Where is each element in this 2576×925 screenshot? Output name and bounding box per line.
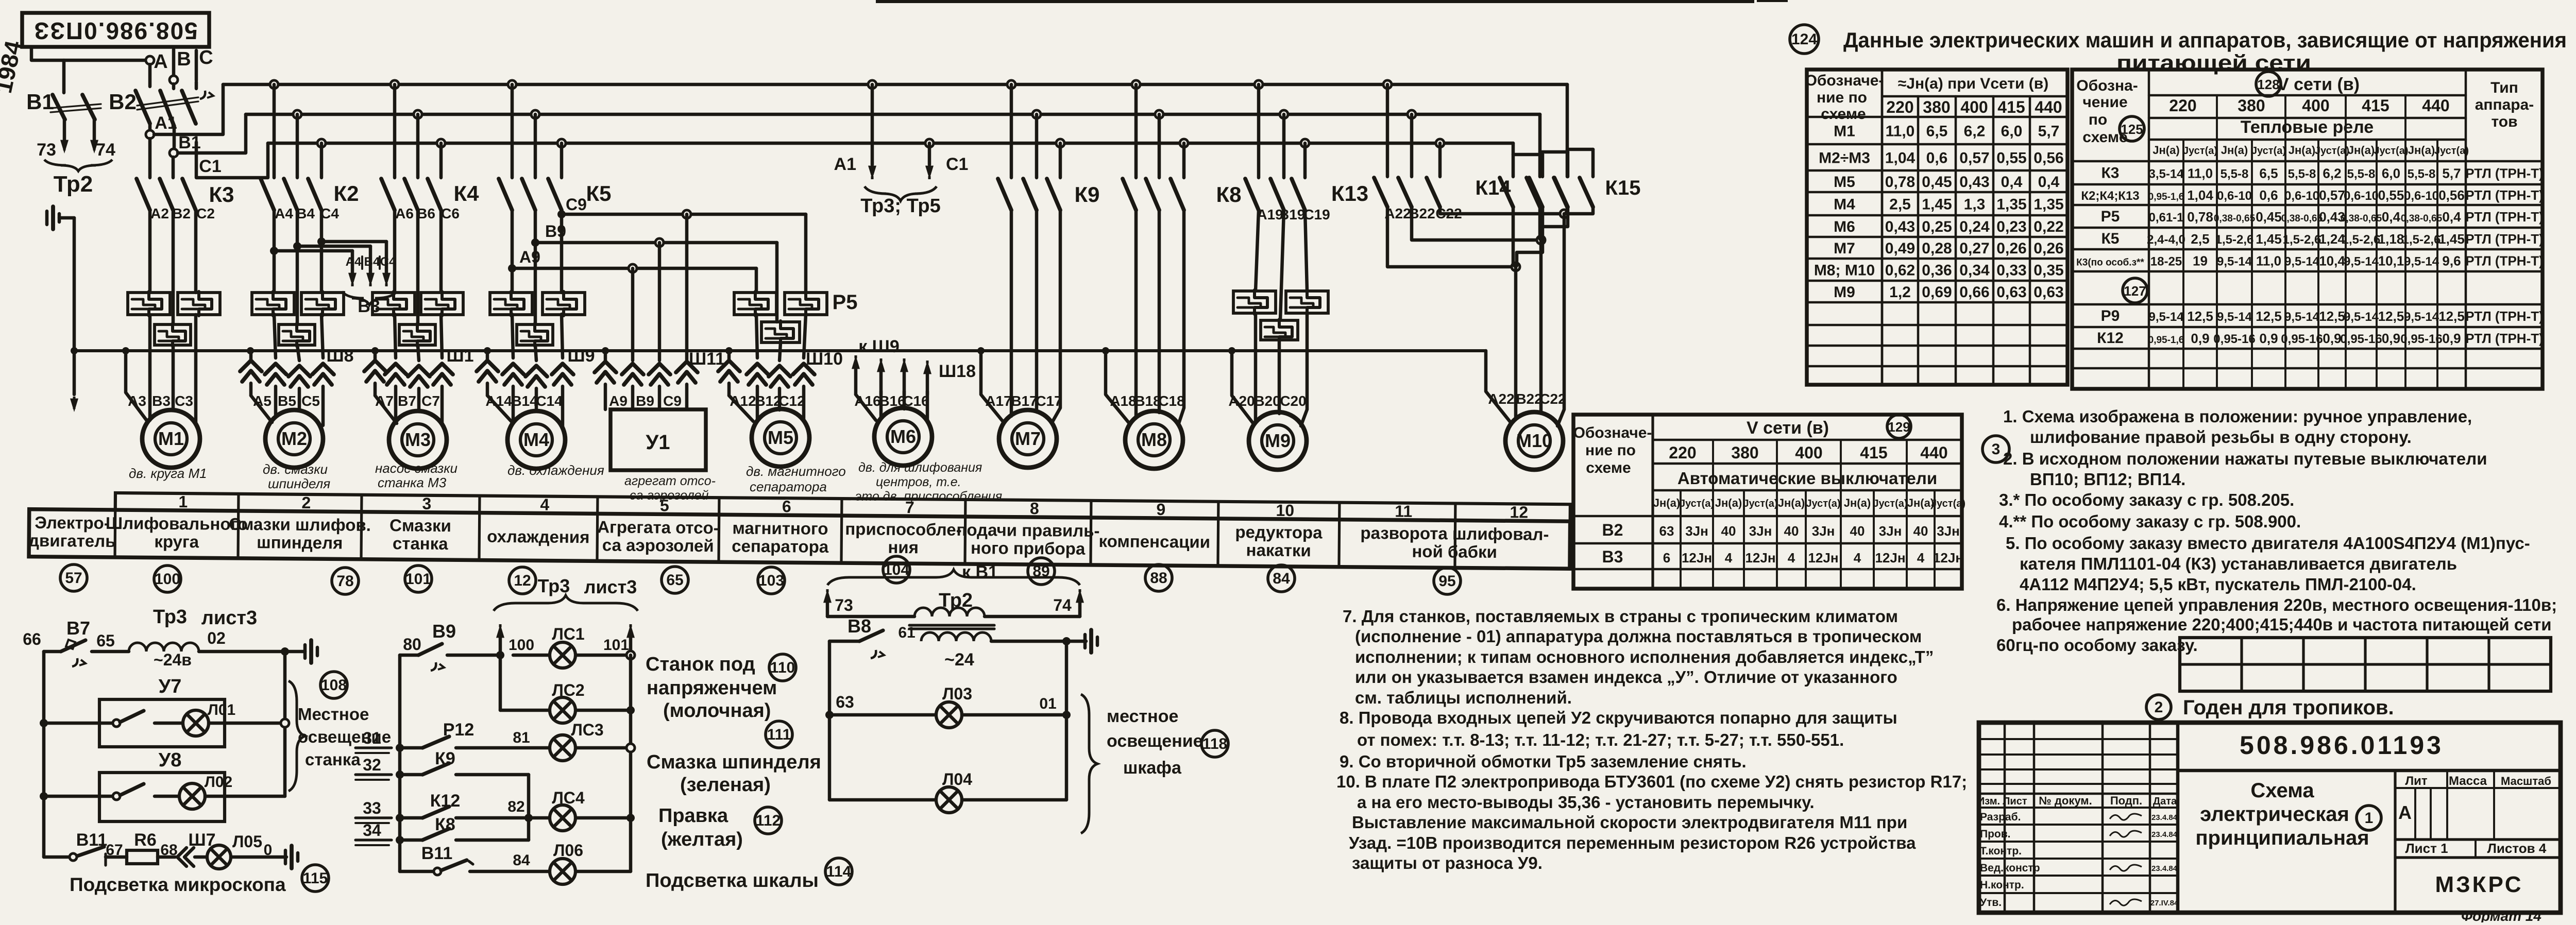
wire R6 to Sh7 <box>158 855 175 859</box>
box U7 <box>99 676 225 747</box>
svg-text:накатки: накатки <box>1246 540 1311 560</box>
svg-text:К15: К15 <box>1605 177 1641 199</box>
note text middle <box>1352 813 1907 832</box>
svg-text:Обозначе-: Обозначе- <box>1805 72 1884 89</box>
wires thermal to motor M1 <box>150 315 196 424</box>
K14 outputs <box>1513 207 1567 267</box>
svg-text:Л01: Л01 <box>208 701 235 718</box>
motor M3 <box>389 411 447 469</box>
label Sh10 <box>806 349 843 369</box>
svg-text:0,26: 0,26 <box>2033 240 2063 257</box>
svg-text:Подп.: Подп. <box>2110 794 2142 807</box>
thermal relay M4 phase C <box>543 292 585 316</box>
bus 1 junction x1693 <box>868 80 876 89</box>
label 02 <box>207 629 226 647</box>
labels A6 B6 C6 <box>395 205 460 221</box>
svg-text:ЛС2: ЛС2 <box>552 681 584 699</box>
note text <box>2003 449 2487 468</box>
svg-text:шлифование правой резьбы в: шлифование правой резьбы в одну сторону. <box>2030 427 2412 447</box>
circled wire number 104 <box>883 556 910 583</box>
svg-text:9,5-14: 9,5-14 <box>2404 310 2439 324</box>
svg-text:от помех: т.т. 8-13; т.т. 11-1: от помех: т.т. 8-13; т.т. 11-12; т.т. 21… <box>1357 730 1844 749</box>
note text middle <box>1349 833 1916 852</box>
svg-text:Лит: Лит <box>2405 774 2428 788</box>
svg-text:0,23: 0,23 <box>1996 218 2026 235</box>
wire K9 to corner <box>456 775 529 840</box>
svg-text:С1: С1 <box>946 155 968 174</box>
label k B1 <box>962 562 998 582</box>
ground symbol left <box>47 207 59 229</box>
bus 1 junction x994 <box>508 80 516 89</box>
title block <box>1977 722 2561 913</box>
thermal relay P5 phase B <box>761 321 800 344</box>
svg-text:115: 115 <box>303 870 328 887</box>
svg-text:Смазки шлифов.: Смазки шлифов. <box>229 515 371 535</box>
svg-text:0,6-10: 0,6-10 <box>2284 189 2319 203</box>
tap B3 phase A <box>270 247 357 286</box>
circled wire number 95 <box>1434 568 1461 594</box>
circled number 114 <box>825 858 852 885</box>
svg-text:шкафа: шкафа <box>1123 758 1182 778</box>
svg-text:Электро-: Электро- <box>35 513 110 533</box>
svg-text:К13: К13 <box>1331 181 1368 205</box>
caption U1 <box>624 474 716 503</box>
K15 outputs <box>1517 207 1593 266</box>
svg-text:12: 12 <box>1510 503 1528 521</box>
svg-text:440: 440 <box>2422 96 2449 115</box>
bus 3 junction x2795 <box>1436 139 1444 147</box>
motor M6 <box>874 408 932 466</box>
svg-text:станка: станка <box>393 534 449 553</box>
chevron A14 <box>502 364 524 385</box>
wires K4 down <box>395 210 441 324</box>
svg-text:104: 104 <box>884 561 909 578</box>
svg-text:С3: С3 <box>175 393 193 409</box>
svg-text:12,5: 12,5 <box>2319 309 2345 324</box>
svg-text:ЛС4: ЛС4 <box>552 789 585 807</box>
note text middle <box>1355 688 1572 707</box>
circled wire number 89 <box>1028 558 1055 585</box>
svg-text:Jуст(а): Jуст(а) <box>2434 145 2469 157</box>
svg-text:В9: В9 <box>636 393 654 409</box>
svg-text:4А112 М4П2У4; 5,5 кВт, пускат: 4А112 М4П2У4; 5,5 кВт, пускатель ПМЛ-210… <box>2020 575 2416 594</box>
svg-text:Пров.: Пров. <box>1980 828 2011 840</box>
svg-text:Тип: Тип <box>2490 79 2518 96</box>
svg-text:М9: М9 <box>1265 430 1291 451</box>
svg-text:Jн(а): Jн(а) <box>2289 144 2315 157</box>
note text middle <box>1355 667 1897 687</box>
svg-text:подачи правиль-: подачи правиль- <box>956 520 1099 540</box>
PE junction x728 <box>371 347 379 354</box>
svg-text:415: 415 <box>1997 98 2025 116</box>
svg-text:0,24: 0,24 <box>1959 218 1990 235</box>
wires chevrons to U1 box <box>605 384 687 409</box>
svg-text:23.4.84: 23.4.84 <box>2151 813 2178 822</box>
svg-text:0,38-0,65: 0,38-0,65 <box>2214 213 2256 224</box>
table header line 1 <box>1843 28 2567 52</box>
svg-text:508.986.0ПЗЗ: 508.986.0ПЗЗ <box>33 18 197 44</box>
svg-text:415: 415 <box>2362 96 2389 115</box>
svg-text:А7: А7 <box>375 393 394 409</box>
svg-text:Р9: Р9 <box>2101 307 2120 324</box>
svg-text:≈Jн(а) при Vсети (в): ≈Jн(а) при Vсети (в) <box>1898 75 2048 92</box>
svg-text:~24: ~24 <box>944 650 974 670</box>
brace local lighting <box>289 681 305 791</box>
ground right circuit A <box>285 640 317 663</box>
svg-text:РТЛ (ТРН-Т): РТЛ (ТРН-Т) <box>2465 231 2544 247</box>
label microscope light <box>70 874 286 895</box>
labels A5 B5 C5 <box>253 393 320 409</box>
svg-text:РТЛ (ТРН-Т): РТЛ (ТРН-Т) <box>2465 309 2544 324</box>
svg-text:РТЛ (ТРН-Т): РТЛ (ТРН-Т) <box>2465 209 2544 225</box>
label station under voltage <box>646 654 777 722</box>
svg-text:Ш1: Ш1 <box>446 346 473 366</box>
PE stub to M7 <box>981 351 1004 422</box>
svg-text:66: 66 <box>23 630 41 648</box>
svg-text:В2: В2 <box>1602 521 1623 539</box>
svg-text:12Jн: 12Jн <box>1745 550 1775 566</box>
left vertical circuit A <box>42 652 46 857</box>
svg-text:станка М3: станка М3 <box>378 475 447 490</box>
svg-text:0,66: 0,66 <box>1959 284 1989 301</box>
switch B11 circuit A <box>44 830 107 865</box>
thermal relay M2 phase A <box>252 292 294 316</box>
svg-text:4: 4 <box>1725 550 1733 566</box>
svg-text:Jуст(а): Jуст(а) <box>2315 145 2349 157</box>
svg-text:Н.контр.: Н.контр. <box>1980 879 2024 891</box>
motor M4 <box>507 411 565 469</box>
label 66 <box>23 630 41 648</box>
svg-text:Jуст(а): Jуст(а) <box>1806 498 1840 509</box>
terminal 31 <box>355 729 392 753</box>
circled number 111 <box>766 721 792 748</box>
bus 1 junction x2443 <box>1255 80 1263 89</box>
tap B3 phase C <box>317 237 391 286</box>
note text <box>1996 595 2557 614</box>
PE junction x486 <box>247 347 254 354</box>
wires M6 up arrows <box>852 355 931 395</box>
note text <box>1999 512 2301 531</box>
note text <box>2003 407 2472 426</box>
circled number 112 <box>755 807 782 834</box>
note text middle <box>1343 607 1898 626</box>
thermal relay M4 phase B <box>517 323 553 346</box>
svg-text:01: 01 <box>1039 695 1056 712</box>
svg-text:9,5-14: 9,5-14 <box>2284 255 2320 269</box>
circled wire number 12 <box>509 567 536 594</box>
label 65 <box>96 631 115 650</box>
wire stub B <box>172 49 176 76</box>
svg-text:127: 127 <box>2124 283 2146 299</box>
caption M2 <box>263 461 330 491</box>
wires K5 down <box>512 210 562 324</box>
svg-text:0,61-1: 0,61-1 <box>2148 211 2183 225</box>
svg-text:31: 31 <box>363 729 381 747</box>
breaker B2 pole C <box>182 82 196 124</box>
svg-text:0,35: 0,35 <box>2033 262 2063 279</box>
svg-text:В2: В2 <box>109 90 137 114</box>
switch K12 aux <box>400 791 460 818</box>
PE stub to M10 <box>1486 351 1511 422</box>
svg-text:0,95-16: 0,95-16 <box>2340 332 2382 346</box>
svg-text:Тр3; Тр5: Тр3; Тр5 <box>860 195 940 217</box>
svg-text:М7: М7 <box>1015 428 1041 449</box>
svg-text:8. Провода входных цепей У2: 8. Провода входных цепей У2 скручиваются… <box>1340 708 1897 727</box>
svg-text:М4: М4 <box>523 429 549 450</box>
svg-text:0,57: 0,57 <box>1959 150 1989 167</box>
motor M2 <box>265 410 323 468</box>
junction U8 left <box>40 792 48 800</box>
wires chevrons to motor M5 <box>729 383 804 421</box>
svg-text:Ш8: Ш8 <box>326 346 353 366</box>
svg-text:К3(по особ.з**: К3(по особ.з** <box>2076 258 2144 268</box>
junction 34 <box>396 836 404 844</box>
svg-text:Изм.: Изм. <box>1977 796 2000 807</box>
bus 3 junction x2298 <box>1180 139 1188 147</box>
wire LS2 branch <box>500 655 549 710</box>
svg-text:Формат 14: Формат 14 <box>2461 908 2541 922</box>
svg-text:80: 80 <box>403 635 421 654</box>
PE riser and down arrow <box>70 218 78 412</box>
svg-text:1,45: 1,45 <box>2256 231 2282 247</box>
svg-text:0,45: 0,45 <box>1922 174 1952 191</box>
svg-text:К8: К8 <box>435 815 455 834</box>
note text <box>2006 534 2530 553</box>
svg-text:В9: В9 <box>545 222 566 241</box>
svg-text:М6: М6 <box>890 426 916 447</box>
svg-text:5,7: 5,7 <box>2442 166 2461 181</box>
breaker B1 pole 1 <box>53 95 69 153</box>
svg-text:С12: С12 <box>778 393 805 409</box>
svg-text:18-25: 18-25 <box>2150 255 2182 269</box>
merge wire A22 <box>1387 207 1520 271</box>
label 67 <box>106 842 123 859</box>
svg-text:к В1: к В1 <box>962 562 998 582</box>
wires K2 down <box>274 210 321 324</box>
svg-text:12,5: 12,5 <box>2256 309 2282 324</box>
svg-text:0,95-1,6: 0,95-1,6 <box>2148 335 2184 346</box>
wires K9 to motor M7 <box>1011 210 1060 423</box>
svg-text:К14: К14 <box>1476 177 1512 199</box>
PE horizontal line <box>74 349 1486 352</box>
wire into U7 <box>44 722 112 725</box>
svg-text:12Jн: 12Jн <box>1933 550 1963 566</box>
wires thermal M9 to motor <box>1256 313 1307 426</box>
motor M8 <box>1125 411 1183 469</box>
svg-text:23.4.84: 23.4.84 <box>2151 830 2178 839</box>
svg-text:1. Схема изображена в полож: 1. Схема изображена в положении: ручное … <box>2003 407 2472 426</box>
svg-text:В3: В3 <box>152 393 171 409</box>
bus 2 junction x2492 <box>1280 110 1288 118</box>
wire K12 to LS4 <box>456 798 549 822</box>
bus 3 junction x2058 <box>1056 139 1064 147</box>
tap B9 <box>531 222 777 247</box>
wire P12 to LS3 <box>456 729 549 748</box>
svg-text:0,28: 0,28 <box>1922 240 1952 257</box>
contactor K13 M10 set <box>1374 84 1440 207</box>
tap C9 <box>557 195 806 218</box>
svg-text:Л06: Л06 <box>553 841 583 860</box>
svg-text:0,9: 0,9 <box>2259 331 2278 346</box>
label Sh9 <box>567 346 595 366</box>
svg-text:0,6-10: 0,6-10 <box>2217 189 2252 203</box>
small revision table <box>2180 638 2551 691</box>
svg-text:1,5-2,6: 1,5-2,6 <box>2215 233 2254 247</box>
svg-text:33: 33 <box>363 799 381 817</box>
svg-text:РТЛ (ТРН-Т): РТЛ (ТРН-Т) <box>2465 331 2544 346</box>
svg-text:4: 4 <box>540 495 549 513</box>
svg-text:110: 110 <box>770 659 795 676</box>
box U8 <box>99 749 225 821</box>
motor M10 <box>1505 412 1563 470</box>
lamp LS3 <box>550 721 635 761</box>
svg-text:К8: К8 <box>1216 182 1242 207</box>
breaker B2 linkage <box>137 97 198 110</box>
svg-text:84: 84 <box>513 852 530 869</box>
bus 1 junction x2205 <box>1132 80 1140 89</box>
bracket arrows Tp3 <box>496 624 635 655</box>
svg-text:Jн(а): Jн(а) <box>1907 496 1934 509</box>
svg-text:61: 61 <box>898 624 915 641</box>
svg-text:Jуст(а): Jуст(а) <box>2183 145 2217 157</box>
brace k B1 <box>827 570 1080 585</box>
wire U8 to right <box>205 795 285 798</box>
chevron C7 <box>431 364 453 385</box>
svg-text:Правка: Правка <box>658 805 728 827</box>
chevron A12 <box>747 364 768 385</box>
PE junction x1415 <box>725 347 733 354</box>
svg-text:0,38-0,65: 0,38-0,65 <box>2341 213 2382 224</box>
wire to R6 <box>106 855 127 859</box>
svg-text:5,5-8: 5,5-8 <box>2408 167 2436 181</box>
svg-text:принципиальная: принципиальная <box>2195 827 2369 849</box>
note text <box>2012 615 2552 634</box>
label Tp2 left <box>54 172 93 197</box>
svg-text:65: 65 <box>96 631 115 650</box>
tap A1 arrow <box>834 84 876 179</box>
svg-text:128: 128 <box>2257 77 2279 92</box>
breaker B1 linkage <box>50 104 101 112</box>
svg-text:11: 11 <box>1395 502 1412 521</box>
label 68 <box>160 842 177 859</box>
svg-text:Jуст(а): Jуст(а) <box>2374 145 2408 157</box>
svg-text:3Jн: 3Jн <box>1812 523 1835 539</box>
svg-text:А: А <box>154 51 167 73</box>
svg-text:К9: К9 <box>435 749 455 768</box>
svg-text:сепаратора: сепаратора <box>750 479 827 494</box>
label C <box>199 47 213 68</box>
label 100 <box>509 637 534 654</box>
svg-text:40: 40 <box>1784 523 1799 539</box>
svg-text:Обозначе-: Обозначе- <box>1573 424 1652 441</box>
svg-text:114: 114 <box>826 863 852 880</box>
svg-text:V сети (в): V сети (в) <box>2277 75 2360 94</box>
ground Tp2 <box>1066 630 1097 653</box>
svg-text:4: 4 <box>1917 550 1925 566</box>
contactor K9 <box>998 84 1100 210</box>
svg-text:9,5-14: 9,5-14 <box>2344 255 2379 269</box>
contactor K13 M9 <box>1245 84 1368 210</box>
svg-text:А1: А1 <box>834 155 856 174</box>
svg-text:(исполнение - 01) аппаратура: (исполнение - 01) аппаратура должна пост… <box>1355 627 1922 646</box>
thermal relay M1 phase C <box>178 292 220 316</box>
svg-text:125: 125 <box>2121 122 2143 137</box>
svg-text:Jуст(а): Jуст(а) <box>1680 498 1714 509</box>
svg-text:Лист 1: Лист 1 <box>2405 841 2448 856</box>
thermal relay M9 phase C <box>1286 290 1328 314</box>
svg-text:А9: А9 <box>609 393 628 409</box>
svg-text:0,95-16: 0,95-16 <box>2281 332 2323 346</box>
svg-text:В20: В20 <box>1254 393 1280 409</box>
wires thermal M3 to chevrons <box>395 314 442 361</box>
svg-text:(зеленая): (зеленая) <box>680 774 771 796</box>
wire switch to lamp L01 <box>155 722 183 725</box>
svg-text:57: 57 <box>65 570 82 587</box>
wires thermal M2 to chevrons <box>274 314 323 361</box>
svg-text:ЛС3: ЛС3 <box>571 721 603 739</box>
wires chevrons to motor M4 <box>487 383 563 428</box>
svg-text:напряженчем: напряженчем <box>647 677 777 699</box>
bus 3 junction x1804 <box>925 139 934 147</box>
labels A3 B3 C3 <box>128 393 193 409</box>
wires thermal M4 to chevrons <box>512 314 563 361</box>
svg-text:0,9: 0,9 <box>2442 331 2461 346</box>
wires chevrons to motor M3 <box>375 383 442 424</box>
svg-text:78: 78 <box>336 573 353 590</box>
svg-text:лист3: лист3 <box>584 576 637 597</box>
svg-text:В7: В7 <box>398 393 416 409</box>
circled number 2 <box>2146 695 2171 720</box>
svg-text:С1: С1 <box>199 157 221 176</box>
svg-text:0,25: 0,25 <box>1922 218 1952 235</box>
svg-text:1,35: 1,35 <box>2033 196 2063 213</box>
contactor K14 <box>1476 84 1567 207</box>
svg-text:К5: К5 <box>2102 230 2120 247</box>
svg-text:101: 101 <box>405 571 431 588</box>
circled number 118 <box>1201 730 1228 757</box>
svg-text:К3: К3 <box>209 182 234 207</box>
wire inductor to ground <box>199 647 289 656</box>
lamp L03 row <box>829 684 1071 728</box>
svg-text:С5: С5 <box>301 393 320 409</box>
svg-text:М7: М7 <box>1834 240 1855 257</box>
svg-text:4: 4 <box>1788 550 1795 566</box>
lamp LS4 <box>550 789 635 831</box>
labels A16 B16 C16 <box>854 393 929 409</box>
svg-text:В18: В18 <box>1134 393 1161 409</box>
svg-text:Jн(а): Jн(а) <box>2153 144 2179 157</box>
bus 1 junction x1963 <box>1007 80 1015 89</box>
transformer Tp2 primary <box>827 590 1080 616</box>
bus 3 junction x1090 <box>557 139 566 147</box>
labels A22 B22 C22 upper <box>1384 205 1462 221</box>
tap junction U1 C9 <box>683 210 691 218</box>
svg-text:1,04: 1,04 <box>1885 150 1916 167</box>
labels A9 B9 C9 <box>609 393 682 409</box>
svg-text:0,49: 0,49 <box>1885 240 1915 257</box>
svg-text:К12: К12 <box>2097 330 2124 347</box>
svg-text:В11: В11 <box>421 844 453 863</box>
svg-text:0,27: 0,27 <box>1959 240 1989 257</box>
svg-text:0,56: 0,56 <box>2033 150 2063 167</box>
label C1 <box>199 157 221 176</box>
bus line 2 <box>246 113 1540 116</box>
contactor K8 <box>1123 84 1242 210</box>
svg-text:2,5: 2,5 <box>2191 231 2209 247</box>
svg-text:9: 9 <box>1156 500 1165 519</box>
svg-text:2: 2 <box>2155 699 2163 716</box>
svg-text:М5: М5 <box>768 427 793 448</box>
